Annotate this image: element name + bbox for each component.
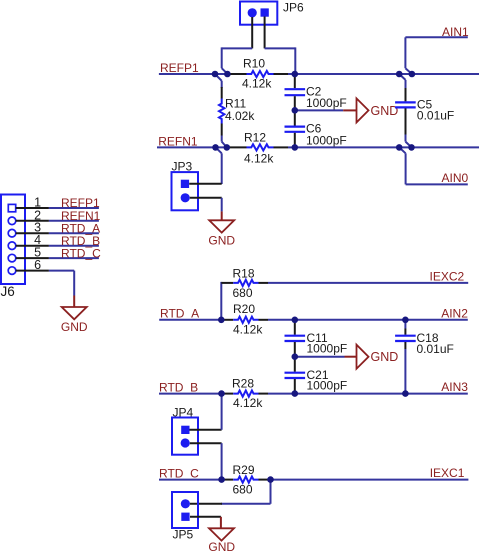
svg-text:4.02k: 4.02k [225,109,255,123]
svg-text:0.01uF: 0.01uF [417,109,454,123]
svg-text:GND: GND [371,104,399,118]
svg-text:1000pF: 1000pF [307,378,348,392]
svg-text:AIN0: AIN0 [442,171,469,185]
svg-text:JP6: JP6 [283,0,304,14]
svg-text:RTD_B: RTD_B [159,380,198,394]
svg-text:IEXC1: IEXC1 [430,466,465,480]
svg-text:4.12k: 4.12k [233,396,263,410]
svg-text:4.12k: 4.12k [244,151,274,165]
svg-text:GND: GND [61,320,88,334]
svg-text:RTD_A: RTD_A [160,306,199,320]
svg-text:AIN1: AIN1 [442,25,469,39]
svg-text:4.12k: 4.12k [242,77,272,91]
svg-text:4.12k: 4.12k [233,322,263,336]
svg-text:RTD_C: RTD_C [61,246,101,260]
svg-text:J6: J6 [1,284,15,299]
svg-text:JP5: JP5 [173,528,194,542]
svg-text:GND: GND [208,233,235,247]
svg-text:IEXC2: IEXC2 [430,270,465,284]
svg-text:1000pF: 1000pF [306,133,347,147]
svg-text:680: 680 [233,286,253,300]
svg-text:AIN2: AIN2 [441,307,468,321]
svg-text:AIN3: AIN3 [441,380,468,394]
svg-text:1000pF: 1000pF [306,96,347,110]
svg-text:R10: R10 [243,57,265,71]
svg-text:GND: GND [371,350,399,364]
svg-text:GND: GND [208,540,235,551]
svg-text:R12: R12 [244,130,266,144]
svg-text:R28: R28 [232,377,254,391]
svg-text:R20: R20 [233,302,255,316]
svg-text:1000pF: 1000pF [307,341,348,355]
svg-text:6: 6 [34,258,41,272]
svg-text:R29: R29 [233,463,255,477]
svg-text:680: 680 [233,483,253,497]
svg-text:0.01uF: 0.01uF [417,342,454,356]
svg-text:R18: R18 [233,266,255,280]
svg-text:RTD_C: RTD_C [159,466,199,480]
